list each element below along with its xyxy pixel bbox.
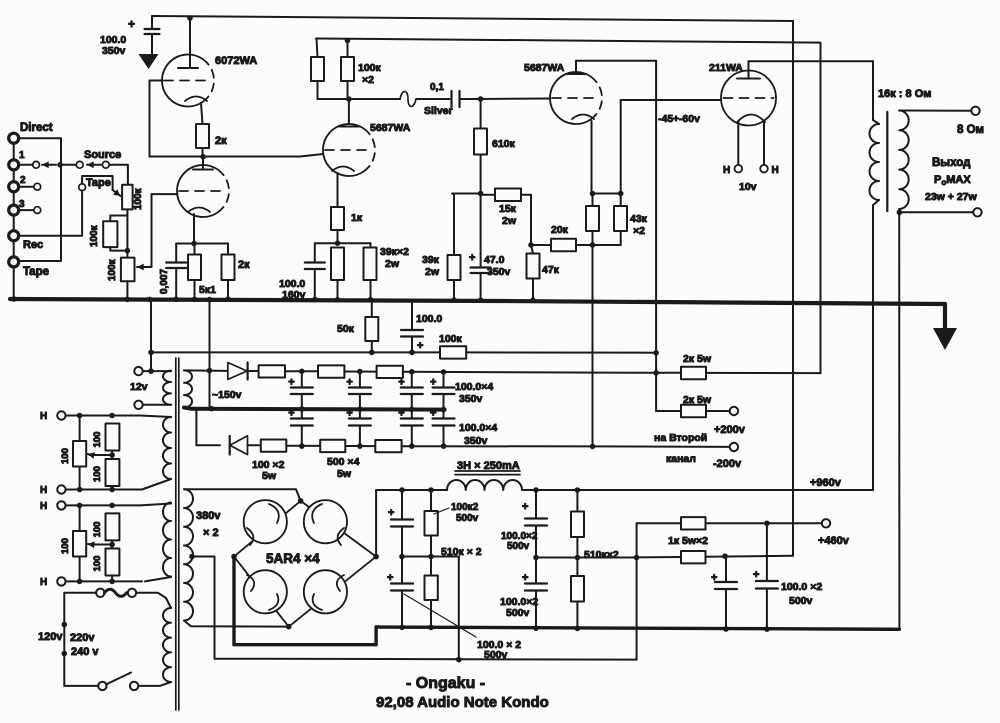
svg-text:Direct: Direct: [20, 122, 53, 134]
svg-text:Source: Source: [84, 149, 121, 161]
svg-text:500v: 500v: [789, 595, 813, 607]
svg-text:1к 5w×2: 1к 5w×2: [668, 535, 708, 547]
svg-text:×2: ×2: [633, 225, 645, 237]
svg-text:H: H: [40, 411, 47, 422]
svg-text:+200v: +200v: [714, 424, 746, 436]
svg-text:160v: 160v: [282, 289, 306, 301]
svg-text:100: 100: [92, 432, 103, 448]
svg-text:350v: 350v: [464, 435, 488, 447]
svg-text:6072WA: 6072WA: [215, 55, 257, 67]
svg-text:100к: 100к: [439, 333, 463, 345]
svg-text:5AR4 ×4: 5AR4 ×4: [266, 551, 320, 566]
svg-text:50к: 50к: [337, 323, 355, 335]
svg-text:2: 2: [20, 175, 26, 186]
svg-text:Выход: Выход: [932, 157, 971, 169]
svg-text:5687WA: 5687WA: [370, 122, 411, 134]
svg-text:5к1: 5к1: [199, 284, 216, 296]
svg-text:Tape: Tape: [86, 177, 111, 189]
svg-text:20к: 20к: [551, 224, 569, 236]
svg-text:2w: 2w: [385, 258, 400, 270]
svg-text:1: 1: [19, 150, 25, 161]
svg-text:+: +: [128, 17, 135, 31]
svg-text:350v: 350v: [102, 45, 126, 57]
svg-text:220v: 220v: [70, 632, 95, 644]
svg-text:+: +: [753, 569, 759, 581]
svg-text:100: 100: [60, 538, 71, 554]
svg-text:500v: 500v: [484, 649, 508, 661]
svg-text:+: +: [288, 377, 294, 389]
svg-text:+: +: [430, 377, 436, 389]
svg-text:100: 100: [92, 466, 103, 482]
svg-text:× 2: × 2: [203, 527, 219, 539]
svg-text:PoMAX: PoMAX: [934, 174, 971, 187]
svg-text:240 v: 240 v: [71, 646, 99, 658]
svg-text:5w: 5w: [262, 470, 277, 482]
svg-text:350v: 350v: [487, 266, 511, 278]
svg-text:100к: 100к: [133, 187, 144, 210]
svg-text:-200v: -200v: [713, 458, 742, 470]
svg-text:+: +: [288, 408, 294, 420]
svg-text:100.0×4: 100.0×4: [459, 422, 497, 434]
svg-text:100к: 100к: [358, 62, 382, 74]
svg-text:+: +: [522, 501, 528, 513]
svg-text:~150v: ~150v: [212, 389, 242, 401]
svg-text:H: H: [40, 501, 47, 512]
svg-text:+960v: +960v: [810, 477, 842, 489]
svg-text:+: +: [469, 252, 475, 264]
svg-text:5w: 5w: [337, 468, 352, 480]
svg-text:+: +: [711, 572, 717, 584]
svg-text:2к 5w: 2к 5w: [683, 394, 712, 406]
svg-text:+: +: [398, 408, 404, 420]
svg-text:610к: 610к: [492, 138, 516, 150]
svg-text:2к 5w: 2к 5w: [683, 353, 712, 365]
svg-text:500v: 500v: [507, 541, 530, 552]
svg-text:1к: 1к: [351, 212, 363, 224]
svg-text:-45÷-60v: -45÷-60v: [658, 113, 700, 125]
svg-text:5687WA: 5687WA: [524, 62, 565, 74]
svg-text:+: +: [417, 340, 423, 352]
svg-text:47.0: 47.0: [484, 254, 505, 266]
svg-text:×2: ×2: [362, 74, 374, 86]
svg-text:500v: 500v: [506, 607, 530, 619]
svg-text:120v: 120v: [38, 631, 63, 643]
svg-text:3: 3: [19, 199, 25, 210]
svg-text:H: H: [40, 577, 47, 588]
svg-text:100к: 100к: [89, 224, 100, 247]
svg-text:380v: 380v: [196, 510, 221, 522]
svg-text:100.0 ×2: 100.0 ×2: [781, 581, 822, 593]
svg-text:0,1: 0,1: [430, 82, 444, 93]
svg-text:3H × 250mA: 3H × 250mA: [457, 460, 520, 472]
svg-text:92,08 Audio Note Kondo: 92,08 Audio Note Kondo: [376, 694, 549, 711]
svg-text:23w + 27w: 23w + 27w: [925, 191, 977, 203]
svg-text:100: 100: [60, 448, 71, 464]
svg-text:+: +: [346, 377, 352, 389]
svg-text:43к: 43к: [630, 213, 648, 225]
svg-text:500v: 500v: [456, 513, 479, 524]
svg-text:350v: 350v: [459, 393, 483, 405]
svg-text:2w: 2w: [502, 215, 517, 227]
svg-text:+: +: [388, 507, 394, 519]
svg-text:10v: 10v: [739, 181, 757, 193]
svg-text:510к×2: 510к×2: [584, 549, 619, 561]
svg-text:канал: канал: [666, 453, 696, 465]
svg-text:Silver: Silver: [424, 105, 453, 117]
svg-text:+: +: [430, 408, 436, 420]
svg-text:47к: 47к: [542, 264, 560, 276]
svg-text:2w: 2w: [425, 266, 440, 278]
svg-text:0,007: 0,007: [159, 269, 170, 294]
svg-text:+: +: [522, 572, 528, 584]
svg-text:100.0×4: 100.0×4: [455, 381, 493, 393]
svg-text:500 ×4: 500 ×4: [327, 456, 360, 468]
svg-text:15к: 15к: [499, 203, 517, 215]
svg-text:на Второй: на Второй: [654, 432, 707, 444]
svg-text:H: H: [772, 165, 779, 176]
svg-text:2к: 2к: [215, 135, 227, 147]
svg-text:100: 100: [92, 522, 103, 538]
svg-text:H: H: [723, 165, 730, 176]
svg-text:2к: 2к: [238, 259, 250, 271]
svg-text:Tape: Tape: [23, 266, 49, 278]
svg-text:+460v: +460v: [818, 535, 850, 547]
svg-text:H: H: [40, 485, 47, 496]
svg-text:+: +: [387, 572, 393, 584]
svg-text:16к : 8 Ом: 16к : 8 Ом: [878, 88, 931, 100]
svg-text:+: +: [346, 408, 352, 420]
svg-text:100.0: 100.0: [416, 313, 442, 325]
svg-text:211WA: 211WA: [709, 62, 743, 74]
svg-text:Rec: Rec: [23, 239, 43, 251]
svg-text:39к×2: 39к×2: [380, 246, 409, 258]
svg-text:100: 100: [92, 556, 103, 572]
svg-text:100к: 100к: [107, 258, 118, 281]
svg-text:100к2: 100к2: [451, 502, 479, 513]
svg-text:12v: 12v: [130, 381, 148, 393]
svg-text:+: +: [398, 377, 404, 389]
svg-text:39к: 39к: [422, 254, 440, 266]
svg-text:8 Ом: 8 Ом: [957, 124, 984, 136]
svg-text:- Ongaku -: - Ongaku -: [406, 675, 485, 692]
